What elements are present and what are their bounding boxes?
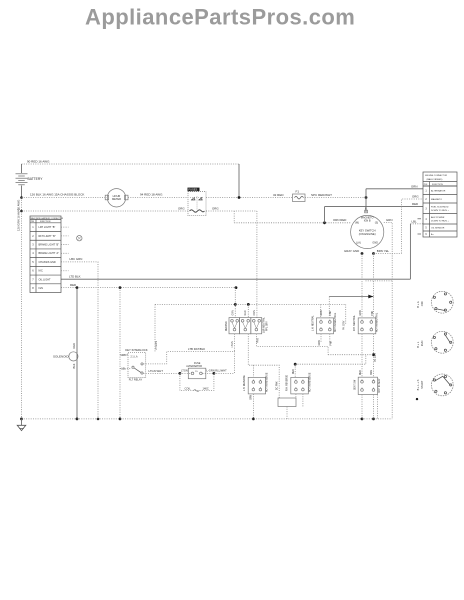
svg-text:ENGINE CONNECTOR: ENGINE CONNECTOR [425, 175, 447, 177]
wire LTGN WHT [143, 372, 180, 374]
wire stub pin 1 [61, 226, 69, 228]
svg-text:ORG: ORG [178, 206, 185, 210]
svg-text:LTGN WHT: LTGN WHT [149, 369, 164, 373]
solenoid [53, 343, 78, 369]
node x236 tap [235, 286, 238, 289]
wire ORG from fuse [206, 210, 257, 212]
svg-text:KEY INTERLOCK: KEY INTERLOCK [125, 348, 147, 352]
wire RED drop to cluster A [234, 288, 236, 318]
svg-text:MAIN WIRE HARNESS CONNECTOR: MAIN WIRE HARNESS CONNECTOR [31, 217, 64, 220]
svg-text:FUEL SOLENOID: FUEL SOLENOID [431, 207, 449, 209]
node cluster A tap [234, 303, 237, 306]
svg-text:L.H. NEUTRAL: L.H. NEUTRAL [311, 315, 314, 331]
wire ORG long vertical x=257 [256, 211, 258, 318]
wire short link y281 [366, 280, 393, 282]
wire PK GRY drop [345, 304, 347, 325]
wire LTGN cluster A down [234, 334, 236, 352]
node ORN RED junction [323, 221, 326, 224]
svg-text:AUX POWER: AUX POWER [431, 216, 445, 219]
svg-text:B + L: B + L [416, 341, 420, 348]
svg-text:SOLENOID: SOLENOID [53, 355, 69, 359]
svg-text:N/C: N/C [39, 270, 44, 273]
key interlock relay K1 [121, 348, 148, 382]
wire GRN stub interlock [120, 354, 128, 356]
svg-text:ORN: ORN [253, 310, 256, 316]
svg-text:NOT IN REVERSE: NOT IN REVERSE [309, 372, 311, 392]
wire coil bypass loop [180, 373, 214, 390]
wire PNK cluster C across [256, 334, 328, 355]
svg-text:SEAT SW: SEAT SW [353, 379, 356, 390]
wire RH reverse down 2 [302, 394, 304, 407]
svg-text:L(A): L(A) [356, 242, 361, 245]
wire relay box to bus [286, 407, 288, 419]
wire RED to connector pin 3 [325, 206, 424, 208]
RH neutral switch S3 [353, 310, 379, 334]
svg-text:PNK: PNK [331, 340, 333, 345]
wire LTD BLK oil light long [61, 278, 410, 280]
svg-text:DOWN TO RUN +: DOWN TO RUN + [431, 220, 449, 222]
fuse block FUSES [188, 188, 207, 216]
wire ground bus [22, 418, 393, 420]
main wire harness connector table [30, 216, 64, 293]
svg-text:LBC GRN: LBC GRN [70, 257, 83, 261]
svg-text:LT GRN: LT GRN [155, 341, 158, 350]
wire y354 link [328, 354, 373, 356]
svg-text:LTGN: LTGN [181, 369, 188, 373]
svg-text:RED: RED [244, 310, 247, 315]
svg-text:FLT RELAY: FLT RELAY [129, 377, 143, 381]
svg-text:ALTERNATOR: ALTERNATOR [431, 189, 446, 192]
svg-text:32 RED: 32 RED [273, 193, 284, 197]
wire key switch B terminal riser [365, 189, 367, 212]
svg-text:PPL GRY: PPL GRY [266, 321, 268, 331]
wire LH reverse riser [252, 365, 254, 377]
wire GRN to connector pin 1 [366, 188, 423, 190]
svg-text:START: START [420, 380, 424, 389]
svg-text:NOT IN NEUTRAL: NOT IN NEUTRAL [334, 312, 337, 332]
wire ORG lower [22, 210, 189, 212]
node bus LH reverse [252, 418, 255, 421]
wire BRN YEL vertical [373, 254, 375, 318]
svg-text:ORG: ORG [371, 370, 373, 375]
wire y364 link [295, 355, 366, 365]
svg-text:GRAY GND: GRAY GND [344, 249, 359, 253]
wire LBL stub interlock [120, 367, 132, 369]
key position START [416, 374, 453, 396]
svg-text:LTD BLK: LTD BLK [69, 274, 81, 278]
wire seat left to bus [361, 395, 363, 419]
svg-text:GRN: GRN [319, 340, 321, 345]
wire LH neutral riser [328, 297, 330, 318]
svg-text:R.H. REVERSE: R.H. REVERSE [287, 374, 289, 391]
svg-text:PK GRY: PK GRY [343, 320, 346, 330]
svg-text:RED: RED [70, 283, 76, 287]
node arrow junction [368, 295, 373, 299]
wire drop to cluster B [247, 304, 249, 318]
svg-text:RFH LIGHT “B”: RFH LIGHT “B” [39, 235, 56, 238]
svg-text:CHASSIS GND: CHASSIS GND [39, 261, 56, 264]
svg-text:ALTERNATOR: ALTERNATOR [186, 365, 202, 368]
svg-text:126 BLK 16 AWG 15A CHASSIS BL: 126 BLK 16 AWG 15A CHASSIS BLOCK [30, 193, 84, 197]
node RH reverse tap [294, 363, 297, 366]
svg-text:BLK: BLK [72, 363, 76, 368]
wire stub pin6 [418, 233, 422, 235]
svg-text:METER: METER [112, 197, 121, 201]
svg-text:IGN B: IGN B [364, 220, 371, 223]
svg-text:OFF: OFF [420, 301, 424, 307]
svg-text:GRN: GRN [321, 310, 323, 315]
svg-text:2 1 L A: 2 1 L A [131, 356, 139, 359]
connector cluster J1 J2 J3 [226, 310, 268, 334]
wire LBL to connector pin 5 [410, 223, 423, 225]
svg-text:BRAKE LIGHT “A”: BRAKE LIGHT “A” [39, 252, 60, 255]
wire GRN key switch to bus [384, 223, 392, 419]
svg-text:BRN YEL: BRN YEL [377, 249, 390, 253]
node x239 junction [238, 196, 241, 199]
svg-text:16 AWG: 16 AWG [17, 200, 21, 210]
svg-text:GRN: GRN [360, 310, 362, 315]
wire x120 vertical [119, 288, 121, 419]
svg-text:RED: RED [360, 370, 362, 375]
wire stub pin 6 [61, 270, 69, 272]
wire left vertical 126 GRN [21, 198, 23, 419]
svg-text:R.H. NEUTRAL: R.H. NEUTRAL [353, 314, 356, 331]
svg-text:NOT IN REVERSE: NOT IN REVERSE [267, 372, 269, 392]
svg-text:LTGN: LTGN [231, 341, 234, 347]
svg-text:MAGNETO: MAGNETO [431, 198, 442, 201]
node key switch feed [365, 196, 368, 199]
svg-text:(S): (S) [375, 222, 379, 225]
svg-text:AppliancePartsPros.com: AppliancePartsPros.com [85, 5, 355, 30]
svg-text:GND: GND [372, 242, 378, 245]
hour meter M1 [105, 189, 128, 207]
wire out of fuse [203, 372, 214, 374]
wire LH neutral bottom stub 1 [320, 334, 322, 342]
wire fuse to x234 corner [214, 372, 235, 374]
wire stub pin 2 [61, 235, 69, 237]
svg-text:GRN: GRN [251, 395, 253, 400]
svg-text:IGN: IGN [39, 287, 44, 290]
wire riser to RED row [324, 207, 326, 223]
svg-text:PNK: PNK [257, 338, 260, 343]
node seat junction [372, 353, 375, 356]
wire stub pin 4 [61, 252, 69, 254]
svg-text:COIL: COIL [185, 386, 192, 390]
wire LBL vertical [409, 224, 411, 279]
wire RH reverse down [295, 394, 297, 398]
svg-text:RED: RED [72, 343, 76, 349]
node fuse right [213, 372, 216, 375]
svg-text:BATTERY: BATTERY [28, 177, 44, 181]
wire drop to LH neutral pin [320, 304, 322, 318]
svg-text:ORG: ORG [212, 206, 219, 210]
wire bus y304 [155, 303, 346, 305]
wire x155 drop to interlock [154, 304, 156, 352]
ground [17, 418, 26, 431]
svg-text:DOWN TO RUN +: DOWN TO RUN + [431, 210, 449, 212]
wire LH reverse to bus [252, 394, 254, 419]
wire into fuse [180, 372, 191, 374]
node bus x120 [119, 418, 122, 421]
wire RH reverse riser [294, 364, 296, 377]
svg-text:RUN: RUN [420, 341, 424, 347]
battery [16, 164, 44, 198]
svg-text:ORG: ORG [412, 195, 419, 199]
svg-text:L&R NEUTRAL: L&R NEUTRAL [263, 316, 266, 333]
wire stub pin 3 [61, 244, 69, 246]
svg-text:LBL: LBL [412, 219, 418, 223]
svg-text:NOT IN NEUTRAL: NOT IN NEUTRAL [376, 312, 379, 332]
svg-text:90 RED 16 AWG: 90 RED 16 AWG [27, 159, 50, 163]
svg-text:(ON ENGINE): (ON ENGINE) [359, 232, 376, 236]
svg-text:GRN: GRN [231, 310, 234, 316]
node bus seat L [361, 418, 364, 421]
svg-text:OIL SENSOR: OIL SENSOR [431, 228, 445, 230]
RH reverse switch S5 [287, 372, 312, 394]
svg-text:RED: RED [412, 202, 418, 206]
wire 90 RED 16 AWG top [22, 163, 240, 165]
svg-text:126 GRN 16 AWG: 126 GRN 16 AWG [17, 208, 21, 231]
svg-text:OIL LIGHT: OIL LIGHT [39, 278, 51, 281]
svg-text:(MALE VIEWED): (MALE VIEWED) [427, 178, 443, 181]
svg-text:PIN: PIN [31, 221, 35, 223]
node key L(A) terminal [361, 252, 364, 255]
svg-text:B + A: B + A [416, 301, 420, 308]
wire LTB RAT/BLK path [143, 351, 234, 373]
svg-text:LTB RAT/BLK: LTB RAT/BLK [188, 347, 205, 351]
svg-text:RED/BLK: RED/BLK [226, 321, 228, 331]
node battery junction [20, 196, 23, 199]
key position OFF [416, 291, 453, 313]
node key GND terminal [372, 252, 375, 255]
wire to RH neutral junction [329, 296, 373, 298]
wire seat right to bus [373, 395, 375, 419]
svg-text:L.H. REVERSE: L.H. REVERSE [244, 375, 246, 391]
wire 126 BLK 16 AWG [22, 197, 108, 199]
key position RUN [416, 331, 453, 353]
LH reverse switch S4 [244, 372, 269, 394]
node solenoid tap [76, 286, 79, 289]
wire ORG to connector pin 2 [402, 199, 424, 254]
node stray dot [416, 398, 418, 400]
node cluster B tap [247, 303, 250, 306]
indicator lamp [77, 236, 82, 241]
node bus x98 [97, 418, 100, 421]
wire to relay box [253, 365, 279, 398]
wire BRN YEL [374, 253, 402, 255]
wire LBC GRN chassis ground [61, 262, 98, 419]
svg-text:NOT IN SEAT: NOT IN SEAT [378, 378, 381, 393]
svg-text:PK GRY: PK GRY [374, 353, 377, 362]
wire 32 / 90 RED [206, 197, 292, 199]
node x120 tap [119, 286, 122, 289]
alternator fuse F2 [186, 362, 206, 379]
wire RED ignition [61, 287, 236, 289]
svg-text:F1: F1 [296, 190, 300, 194]
node ORG junction [20, 210, 23, 213]
wire solenoid feed [76, 288, 78, 419]
svg-text:LFH LIGHT “B”: LFH LIGHT “B” [39, 226, 56, 229]
svg-text:DC PNK: DC PNK [276, 381, 278, 390]
svg-text:PNK: PNK [330, 310, 332, 315]
engine connector table [423, 172, 457, 237]
fuse F1 [293, 190, 306, 202]
svg-text:FUSES: FUSES [188, 188, 197, 192]
svg-text:SPC RED/WHT: SPC RED/WHT [311, 193, 332, 197]
wire SPC RED/WHT [305, 197, 366, 199]
wire seat aux to bus [377, 395, 379, 419]
wire GRAY GND vertical [361, 254, 363, 318]
svg-text:L-GRN RLL/WHT: L-GRN RLL/WHT [207, 369, 228, 373]
svg-text:B + L + S: B + L + S [416, 379, 420, 390]
seat switch S6 [353, 370, 380, 395]
wire ORG branch down [233, 211, 235, 223]
wire ORN RED [234, 222, 351, 224]
wire cluster B down [248, 334, 253, 365]
svg-text:94 RED 18 AWG: 94 RED 18 AWG [140, 193, 163, 197]
svg-text:ORN RED: ORN RED [333, 218, 346, 222]
svg-text:GRN: GRN [411, 184, 417, 188]
svg-text:FUNCTION: FUNCTION [40, 221, 51, 223]
svg-text:BRAKE LIGHT “B”: BRAKE LIGHT “B” [39, 244, 60, 247]
wire LH neutral bottom stub 2 [329, 334, 331, 342]
svg-text:140C: 140C [203, 386, 209, 390]
LH neutral switch S2 [311, 310, 337, 334]
wire vertical drop x=239 [238, 164, 240, 198]
svg-text:GRN: GRN [386, 218, 392, 222]
svg-text:GRN: GRN [121, 353, 127, 357]
node bus seat R [372, 418, 375, 421]
node bus solenoid [76, 418, 79, 421]
svg-text:RED: RED [293, 369, 295, 374]
wire stub pin4 [418, 218, 422, 220]
svg-text:(M): (M) [355, 222, 359, 225]
reverse relay box [278, 398, 296, 407]
wire 94 RED 18 AWG [128, 197, 188, 199]
key switch S1 [351, 207, 384, 248]
node fuse left [179, 372, 182, 375]
